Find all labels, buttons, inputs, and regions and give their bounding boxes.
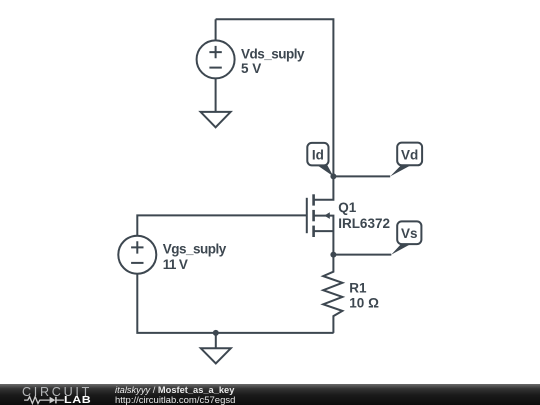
svg-text:Vd: Vd [401,147,418,162]
svg-text:11 V: 11 V [163,257,188,272]
svg-text:10 Ω: 10 Ω [349,296,379,311]
svg-text:R1: R1 [349,280,367,295]
svg-text:Vds_suply: Vds_suply [241,46,305,61]
svg-text:5 V: 5 V [241,61,261,76]
svg-text:Id: Id [312,148,324,163]
svg-text:IRL6372: IRL6372 [338,216,390,231]
svg-text:Vs: Vs [401,226,418,241]
svg-text:Q1: Q1 [338,200,357,215]
svg-text:Vgs_suply: Vgs_suply [163,241,227,256]
